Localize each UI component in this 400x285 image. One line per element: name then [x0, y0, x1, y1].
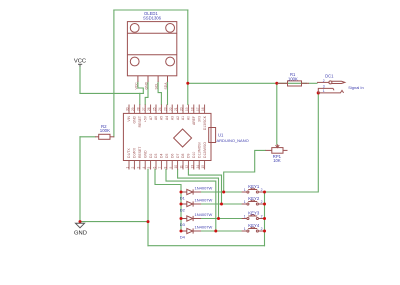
svg-text:D4: D4: [180, 235, 186, 240]
svg-text:3: 3: [136, 167, 140, 169]
svg-text:D3: D3: [180, 222, 186, 227]
svg-text:3V3: 3V3: [197, 116, 201, 122]
svg-text:A0: A0: [187, 116, 191, 120]
svg-text:27: 27: [142, 107, 146, 111]
svg-text:A5: A5: [160, 116, 164, 120]
svg-text:D12/MISO: D12/MISO: [203, 142, 207, 158]
svg-text:10: 10: [174, 165, 178, 169]
svg-text:8: 8: [163, 167, 167, 169]
svg-text:2: 2: [261, 227, 263, 231]
svg-text:KEY2: KEY2: [248, 196, 260, 201]
svg-text:10K: 10K: [273, 158, 281, 163]
svg-text:1N4007W: 1N4007W: [195, 197, 213, 202]
svg-text:D8: D8: [181, 154, 185, 158]
svg-text:A2: A2: [176, 116, 180, 120]
svg-text:D10: D10: [192, 152, 196, 158]
svg-text:D7: D7: [176, 154, 180, 158]
svg-text:12: 12: [185, 165, 189, 169]
svg-text:A6: A6: [154, 116, 158, 120]
svg-text:A1: A1: [181, 116, 185, 120]
svg-text:16: 16: [201, 107, 205, 111]
svg-text:A3: A3: [170, 116, 174, 120]
svg-text:20: 20: [180, 107, 184, 111]
svg-text:A4: A4: [165, 116, 169, 120]
svg-text:GND: GND: [143, 150, 147, 158]
svg-text:D1/TX: D1/TX: [127, 148, 131, 158]
svg-text:SCL: SCL: [155, 83, 159, 90]
svg-text:2: 2: [261, 188, 263, 192]
svg-text:1: 1: [244, 227, 246, 231]
svg-text:+5V: +5V: [143, 115, 147, 122]
svg-text:22: 22: [169, 107, 173, 111]
svg-text:1: 1: [323, 89, 325, 93]
svg-text:AREF: AREF: [192, 116, 196, 125]
svg-text:SSD1306: SSD1306: [143, 16, 162, 21]
svg-text:D3: D3: [154, 154, 158, 158]
svg-text:D9: D9: [187, 154, 191, 158]
svg-text:2: 2: [261, 200, 263, 204]
svg-text:1: 1: [244, 214, 246, 218]
svg-text:4: 4: [142, 167, 146, 169]
svg-text:2: 2: [323, 79, 325, 83]
svg-text:RESET: RESET: [138, 147, 142, 158]
svg-text:15: 15: [201, 165, 205, 169]
svg-text:D13/SCK: D13/SCK: [203, 115, 207, 130]
svg-text:VCC: VCC: [74, 59, 86, 65]
svg-text:3: 3: [323, 85, 325, 89]
svg-text:1: 1: [126, 167, 130, 169]
svg-text:D0/RX: D0/RX: [133, 147, 137, 158]
svg-text:1: 1: [244, 200, 246, 204]
svg-text:U1: U1: [218, 133, 224, 138]
svg-text:D1: D1: [180, 196, 186, 201]
svg-text:1: 1: [244, 188, 246, 192]
svg-text:1N4007W: 1N4007W: [195, 224, 213, 229]
svg-text:Signal In: Signal In: [348, 85, 364, 90]
svg-text:D6: D6: [170, 154, 174, 158]
svg-text:1N4007W: 1N4007W: [195, 185, 213, 190]
svg-text:D5: D5: [165, 154, 169, 158]
svg-text:28: 28: [136, 107, 140, 111]
svg-text:D11/MOSI: D11/MOSI: [197, 142, 201, 158]
svg-text:D4: D4: [160, 154, 164, 158]
svg-text:2: 2: [261, 214, 263, 218]
svg-text:ARDUINO_NANO: ARDUINO_NANO: [217, 138, 249, 143]
svg-text:100K: 100K: [288, 76, 298, 81]
svg-text:14: 14: [196, 165, 200, 169]
svg-text:7: 7: [158, 167, 162, 169]
svg-text:KEY3: KEY3: [248, 211, 260, 216]
svg-text:29: 29: [131, 107, 135, 111]
svg-text:DC1: DC1: [325, 73, 334, 78]
svg-text:D2: D2: [180, 208, 186, 213]
svg-text:11: 11: [180, 165, 184, 169]
svg-text:KEY1: KEY1: [248, 184, 260, 189]
svg-text:23: 23: [163, 107, 167, 111]
svg-text:5: 5: [147, 167, 151, 169]
svg-text:VIN: VIN: [127, 115, 131, 121]
svg-text:13: 13: [190, 165, 194, 169]
svg-text:KEY4: KEY4: [248, 223, 260, 228]
svg-text:A7: A7: [149, 116, 153, 120]
svg-text:2: 2: [131, 167, 135, 169]
svg-text:RESET: RESET: [138, 116, 142, 127]
svg-text:GND: GND: [74, 231, 87, 237]
svg-text:VCC: VCC: [134, 82, 138, 90]
svg-text:21: 21: [174, 107, 178, 111]
svg-text:24: 24: [158, 107, 162, 111]
svg-text:9: 9: [169, 167, 173, 169]
svg-text:D2: D2: [149, 154, 153, 158]
svg-text:1N4007W: 1N4007W: [195, 212, 213, 217]
svg-text:100K: 100K: [100, 128, 110, 133]
svg-text:SDA: SDA: [164, 82, 168, 90]
svg-text:GND: GND: [144, 81, 148, 89]
svg-text:19: 19: [185, 107, 189, 111]
svg-text:18: 18: [190, 107, 194, 111]
svg-text:25: 25: [153, 107, 157, 111]
svg-text:30: 30: [126, 107, 130, 111]
svg-text:26: 26: [147, 107, 151, 111]
svg-text:17: 17: [196, 107, 200, 111]
svg-text:GND: GND: [133, 115, 137, 123]
svg-text:6: 6: [153, 167, 157, 169]
